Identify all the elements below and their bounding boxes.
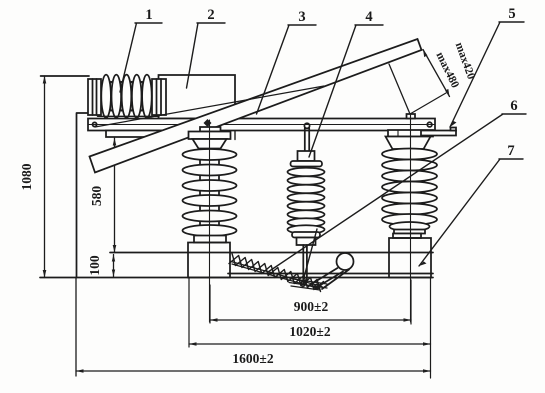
- left insulator bottom flange: [194, 236, 226, 243]
- gap dimension line max420/max480: [423, 50, 450, 97]
- spring 6 zigzag A: [232, 254, 324, 290]
- svg-text:6: 6: [510, 98, 517, 114]
- middle insulator sheds: [288, 168, 325, 234]
- base ground line: [40, 277, 433, 279]
- leader 3: [257, 25, 317, 114]
- svg-text:2: 2: [207, 7, 214, 23]
- right insulator neck: [394, 230, 425, 234]
- lever struts: [309, 268, 349, 289]
- svg-text:1600±2: 1600±2: [232, 351, 273, 366]
- spring 6 zigzag B: [229, 256, 321, 292]
- bellows terminal 1 convolutions: [101, 75, 151, 118]
- lever roller: [337, 253, 354, 270]
- bellows terminal 1 left collar: [88, 79, 101, 115]
- leader 2: [187, 23, 226, 88]
- middle insulator operating rod: [303, 245, 307, 282]
- middle insulator stem: [305, 128, 309, 151]
- svg-text:580: 580: [89, 186, 104, 207]
- svg-text:7: 7: [507, 143, 514, 159]
- gap extension line lower: [410, 93, 446, 114]
- svg-text:1080: 1080: [19, 163, 34, 190]
- svg-text:3: 3: [298, 9, 305, 25]
- dimension 900 line: [210, 319, 411, 321]
- swivel plate 5 base bar: [88, 119, 435, 131]
- left insulator centerline: [209, 120, 211, 322]
- right insulator base step: [393, 234, 421, 239]
- under-plate bar: [106, 131, 168, 138]
- frame top chord: [110, 252, 433, 254]
- left insulator cap: [200, 127, 221, 132]
- dimension 1020 line: [189, 343, 431, 345]
- middle insulator bottom disc: [292, 232, 320, 238]
- gap extension line upper: [389, 64, 410, 114]
- leader 7: [419, 159, 523, 266]
- spring axis lines: [231, 262, 322, 289]
- bellows base shelf: [98, 115, 160, 117]
- terminal box 2 body: [159, 75, 236, 119]
- left insulator base block: [188, 243, 230, 278]
- middle insulator top disc: [291, 161, 323, 167]
- fixed contact tab on plate: [407, 114, 416, 119]
- leader 4: [309, 25, 383, 157]
- right insulator base block: [389, 238, 431, 278]
- dimension 1080 line: [44, 76, 46, 278]
- svg-text:900±2: 900±2: [294, 299, 329, 314]
- middle insulator clamp: [298, 151, 315, 161]
- middle insulator pin: [304, 123, 309, 128]
- pivot bolt: [204, 119, 212, 127]
- extension line 1600 left: [75, 278, 77, 377]
- right insulator cap plate: [388, 130, 433, 137]
- right insulator centerline: [410, 114, 412, 322]
- extension lines bottom: [189, 278, 431, 379]
- crank cluster: [289, 279, 327, 291]
- right insulator sheds: [382, 149, 437, 232]
- svg-text:5: 5: [508, 6, 515, 22]
- bellows terminal 1 right collar: [152, 79, 166, 115]
- middle insulator base: [297, 238, 316, 246]
- fixed contact bar: [421, 131, 456, 136]
- dimension 1600 line: [76, 370, 431, 372]
- svg-text:1020±2: 1020±2: [289, 324, 330, 339]
- svg-text:1: 1: [145, 7, 152, 23]
- dimension 1080 extension line top: [41, 75, 89, 77]
- right insulator cap trapezoid: [386, 137, 431, 150]
- plate right pin: [427, 122, 432, 127]
- plate left pin: [93, 122, 97, 126]
- crank pull rod: [303, 229, 317, 281]
- leader 1: [120, 23, 162, 92]
- frame bottom chord: [228, 273, 433, 275]
- blade 3 (knife arm): [90, 39, 422, 173]
- blade stay rod: [95, 86, 324, 127]
- left support column: [77, 113, 99, 278]
- dimension 580 line: [114, 138, 116, 253]
- leader 6: [268, 114, 526, 272]
- svg-text:4: 4: [365, 9, 372, 25]
- left insulator sheds: [183, 149, 237, 236]
- leader 5: [450, 22, 524, 127]
- svg-text:100: 100: [87, 255, 102, 276]
- dimension 100 line: [113, 255, 115, 277]
